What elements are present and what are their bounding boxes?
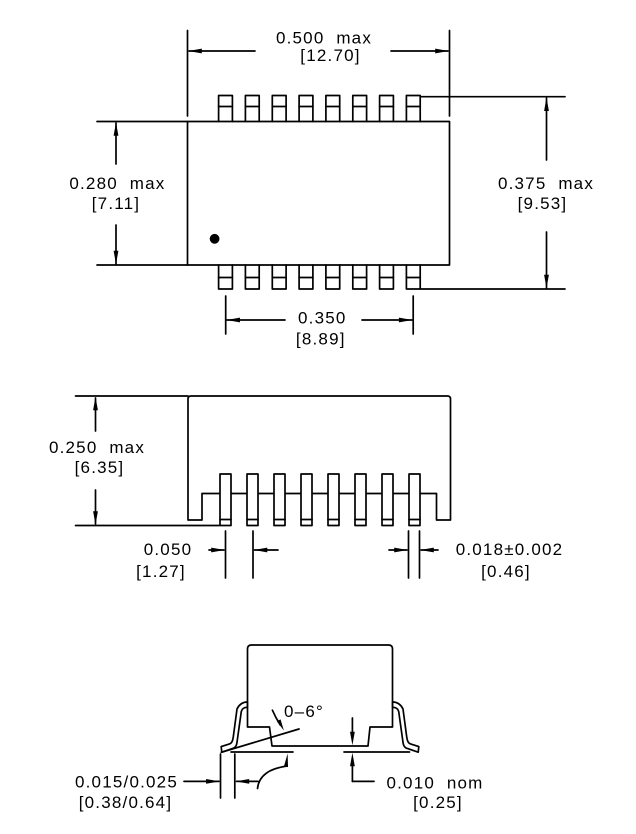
svg-text:0.500 max: 0.500 max xyxy=(276,29,372,48)
svg-text:[0.25]: [0.25] xyxy=(413,793,463,812)
svg-text:0–6°: 0–6° xyxy=(284,702,324,721)
svg-text:0.250 max: 0.250 max xyxy=(49,438,145,457)
svg-text:[12.70]: [12.70] xyxy=(300,46,360,65)
svg-text:0.280 max: 0.280 max xyxy=(69,174,165,193)
svg-text:[7.11]: [7.11] xyxy=(92,194,140,213)
svg-text:0.010 nom: 0.010 nom xyxy=(386,774,483,793)
svg-text:[0.46]: [0.46] xyxy=(481,562,531,581)
svg-text:0.350: 0.350 xyxy=(298,309,347,328)
svg-text:0.015/0.025: 0.015/0.025 xyxy=(75,773,178,792)
svg-text:0.050: 0.050 xyxy=(144,540,193,559)
svg-text:[6.35]: [6.35] xyxy=(75,458,125,477)
svg-text:0.018±0.002: 0.018±0.002 xyxy=(456,540,564,559)
svg-text:[1.27]: [1.27] xyxy=(136,562,186,581)
svg-text:[0.38/0.64]: [0.38/0.64] xyxy=(79,793,173,812)
svg-text:[8.89]: [8.89] xyxy=(296,330,346,349)
svg-text:0.375 max: 0.375 max xyxy=(498,174,594,193)
svg-text:[9.53]: [9.53] xyxy=(518,194,568,213)
